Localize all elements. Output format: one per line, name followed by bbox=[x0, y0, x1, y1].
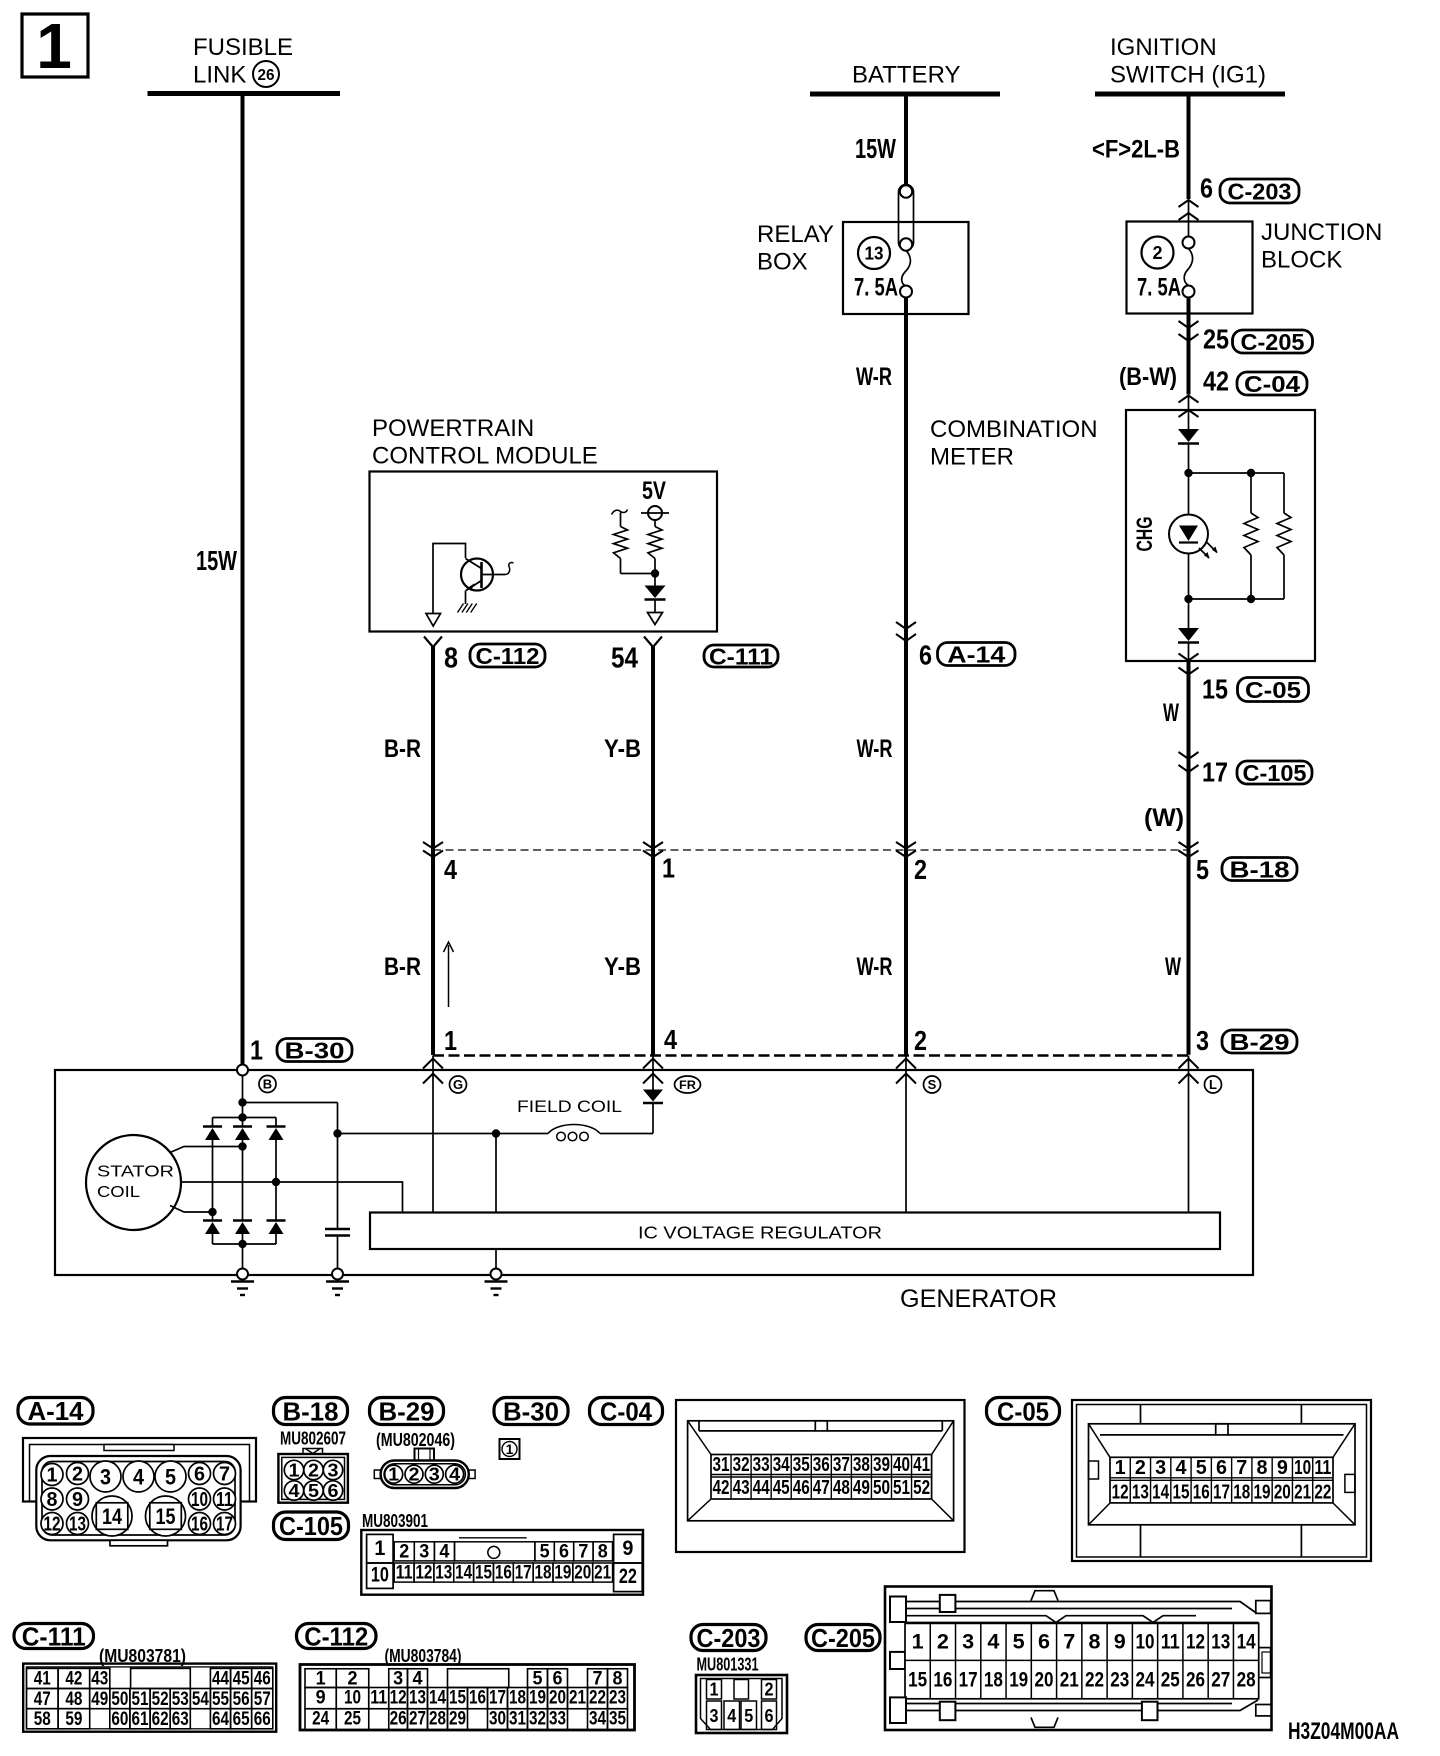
svg-text:C-04: C-04 bbox=[1244, 371, 1300, 397]
svg-text:B-R: B-R bbox=[384, 953, 421, 981]
svg-text:C-112: C-112 bbox=[304, 1621, 368, 1651]
svg-text:15W: 15W bbox=[855, 133, 896, 164]
svg-text:27: 27 bbox=[1211, 1669, 1230, 1692]
svg-text:26: 26 bbox=[390, 1709, 407, 1730]
svg-text:1: 1 bbox=[912, 1631, 924, 1654]
svg-text:42: 42 bbox=[65, 1669, 82, 1690]
svg-text:66: 66 bbox=[254, 1709, 271, 1730]
svg-text:BLOCK: BLOCK bbox=[1261, 247, 1342, 274]
svg-text:1: 1 bbox=[374, 1537, 385, 1560]
svg-text:C-203: C-203 bbox=[697, 1623, 761, 1653]
svg-text:15: 15 bbox=[475, 1563, 492, 1584]
svg-text:19: 19 bbox=[554, 1563, 571, 1584]
svg-text:W-R: W-R bbox=[856, 363, 892, 391]
svg-text:57: 57 bbox=[254, 1689, 271, 1710]
svg-text:11: 11 bbox=[370, 1687, 387, 1708]
svg-text:45: 45 bbox=[233, 1669, 250, 1690]
svg-text:L: L bbox=[1209, 1077, 1217, 1092]
svg-text:3: 3 bbox=[962, 1631, 974, 1654]
svg-text:A-14: A-14 bbox=[28, 1396, 85, 1426]
svg-text:MU803901: MU803901 bbox=[362, 1511, 428, 1531]
svg-text:39: 39 bbox=[873, 1454, 890, 1476]
svg-text:3: 3 bbox=[710, 1706, 719, 1726]
svg-text:6: 6 bbox=[1200, 173, 1213, 204]
svg-text:GENERATOR: GENERATOR bbox=[900, 1285, 1057, 1313]
svg-text:26: 26 bbox=[1186, 1669, 1205, 1692]
svg-text:6: 6 bbox=[765, 1706, 774, 1726]
svg-text:62: 62 bbox=[152, 1709, 169, 1730]
svg-text:9: 9 bbox=[316, 1687, 326, 1708]
svg-text:20: 20 bbox=[549, 1687, 566, 1708]
svg-text:34: 34 bbox=[773, 1454, 791, 1476]
svg-text:C-111: C-111 bbox=[709, 643, 773, 669]
svg-text:C-205: C-205 bbox=[1241, 329, 1305, 355]
svg-text:11: 11 bbox=[1161, 1631, 1180, 1654]
svg-text:21: 21 bbox=[1060, 1669, 1079, 1692]
svg-text:5: 5 bbox=[744, 1706, 753, 1726]
svg-text:H3Z04M00AA: H3Z04M00AA bbox=[1288, 1718, 1399, 1745]
svg-text:35: 35 bbox=[793, 1454, 810, 1476]
svg-text:18: 18 bbox=[509, 1687, 526, 1708]
svg-text:9: 9 bbox=[1114, 1631, 1126, 1654]
svg-text:(MU802046): (MU802046) bbox=[376, 1430, 455, 1450]
svg-text:49: 49 bbox=[91, 1689, 108, 1710]
svg-text:2: 2 bbox=[914, 854, 927, 885]
svg-text:C-04: C-04 bbox=[600, 1396, 652, 1426]
svg-text:10: 10 bbox=[1294, 1457, 1311, 1479]
svg-text:13: 13 bbox=[1211, 1631, 1230, 1654]
svg-text:17: 17 bbox=[515, 1563, 532, 1584]
svg-text:17: 17 bbox=[489, 1687, 506, 1708]
svg-text:52: 52 bbox=[913, 1477, 930, 1499]
svg-text:50: 50 bbox=[111, 1689, 128, 1710]
svg-text:34: 34 bbox=[589, 1709, 606, 1730]
svg-text:2: 2 bbox=[914, 1025, 927, 1056]
svg-text:C-05: C-05 bbox=[997, 1396, 1049, 1426]
svg-text:SWITCH (IG1): SWITCH (IG1) bbox=[1110, 62, 1266, 89]
svg-text:51: 51 bbox=[132, 1689, 149, 1710]
svg-text:40: 40 bbox=[893, 1454, 910, 1476]
svg-text:1: 1 bbox=[289, 1460, 300, 1480]
svg-text:25: 25 bbox=[344, 1709, 361, 1730]
svg-text:22: 22 bbox=[619, 1565, 637, 1588]
svg-text:27: 27 bbox=[409, 1709, 426, 1730]
svg-text:B: B bbox=[263, 1077, 272, 1092]
svg-text:63: 63 bbox=[172, 1709, 189, 1730]
svg-text:IC VOLTAGE REGULATOR: IC VOLTAGE REGULATOR bbox=[638, 1223, 882, 1243]
svg-text:29: 29 bbox=[449, 1709, 466, 1730]
svg-text:47: 47 bbox=[813, 1477, 830, 1499]
svg-text:B-18: B-18 bbox=[1230, 856, 1290, 882]
svg-text:Y-B: Y-B bbox=[604, 953, 641, 981]
svg-text:18: 18 bbox=[535, 1563, 552, 1584]
svg-text:65: 65 bbox=[233, 1709, 250, 1730]
svg-text:1: 1 bbox=[1115, 1457, 1126, 1479]
svg-text:12: 12 bbox=[44, 1514, 61, 1536]
svg-text:JUNCTION: JUNCTION bbox=[1261, 219, 1382, 246]
svg-text:48: 48 bbox=[833, 1477, 850, 1499]
svg-text:7. 5A: 7. 5A bbox=[1137, 274, 1181, 302]
svg-text:IGNITION: IGNITION bbox=[1110, 34, 1217, 61]
svg-text:36: 36 bbox=[813, 1454, 830, 1476]
svg-text:11: 11 bbox=[1314, 1457, 1331, 1479]
svg-text:24: 24 bbox=[312, 1709, 329, 1730]
svg-text:31: 31 bbox=[713, 1454, 730, 1476]
svg-text:13: 13 bbox=[865, 244, 884, 264]
svg-text:21: 21 bbox=[1294, 1482, 1311, 1504]
svg-text:MU802607: MU802607 bbox=[280, 1429, 346, 1449]
svg-text:B-29: B-29 bbox=[1230, 1029, 1290, 1055]
svg-text:4: 4 bbox=[444, 854, 457, 885]
svg-text:18: 18 bbox=[1233, 1482, 1250, 1504]
svg-text:10: 10 bbox=[1136, 1631, 1155, 1654]
svg-text:5: 5 bbox=[1196, 1457, 1207, 1479]
svg-text:44: 44 bbox=[753, 1477, 771, 1499]
svg-text:46: 46 bbox=[793, 1477, 810, 1499]
svg-text:FIELD COIL: FIELD COIL bbox=[517, 1097, 622, 1116]
svg-text:9: 9 bbox=[622, 1537, 633, 1560]
svg-text:7: 7 bbox=[1236, 1457, 1247, 1479]
svg-text:C-112: C-112 bbox=[476, 643, 540, 669]
svg-text:20: 20 bbox=[574, 1563, 591, 1584]
svg-text:Y-B: Y-B bbox=[604, 735, 641, 763]
svg-text:22: 22 bbox=[589, 1687, 606, 1708]
svg-text:15: 15 bbox=[449, 1687, 466, 1708]
svg-text:16: 16 bbox=[495, 1563, 512, 1584]
svg-text:1: 1 bbox=[662, 853, 675, 884]
svg-text:B-29: B-29 bbox=[379, 1396, 435, 1426]
svg-text:58: 58 bbox=[34, 1709, 51, 1730]
svg-text:2: 2 bbox=[409, 1465, 420, 1485]
svg-text:6: 6 bbox=[194, 1464, 205, 1486]
svg-text:17: 17 bbox=[216, 1514, 233, 1536]
svg-text:28: 28 bbox=[1237, 1669, 1256, 1692]
svg-text:C-05: C-05 bbox=[1245, 677, 1301, 703]
svg-text:W-R: W-R bbox=[857, 953, 893, 981]
svg-text:(MU803784): (MU803784) bbox=[385, 1646, 462, 1666]
svg-text:23: 23 bbox=[609, 1687, 626, 1708]
svg-text:50: 50 bbox=[873, 1477, 890, 1499]
svg-text:C-111: C-111 bbox=[22, 1621, 86, 1651]
svg-text:43: 43 bbox=[733, 1477, 750, 1499]
svg-text:20: 20 bbox=[1274, 1482, 1291, 1504]
svg-text:4: 4 bbox=[449, 1465, 460, 1485]
svg-text:7: 7 bbox=[1063, 1631, 1075, 1654]
svg-text:1: 1 bbox=[444, 1025, 457, 1056]
svg-text:W: W bbox=[1163, 699, 1179, 727]
svg-text:16: 16 bbox=[933, 1669, 952, 1692]
svg-text:A-14: A-14 bbox=[947, 641, 1005, 667]
svg-text:49: 49 bbox=[853, 1477, 870, 1499]
svg-text:1: 1 bbox=[36, 10, 72, 82]
svg-text:12: 12 bbox=[415, 1563, 432, 1584]
svg-text:FUSIBLE: FUSIBLE bbox=[193, 34, 293, 61]
svg-text:G: G bbox=[453, 1077, 463, 1092]
svg-text:6: 6 bbox=[1216, 1457, 1227, 1479]
svg-text:FR: FR bbox=[679, 1078, 696, 1092]
svg-text:RELAY: RELAY bbox=[757, 221, 834, 248]
svg-text:42: 42 bbox=[713, 1477, 730, 1499]
svg-text:2: 2 bbox=[308, 1460, 319, 1480]
svg-text:(W): (W) bbox=[1144, 804, 1184, 832]
svg-text:W-R: W-R bbox=[857, 735, 893, 763]
svg-text:14: 14 bbox=[1237, 1631, 1256, 1654]
svg-text:2: 2 bbox=[1135, 1457, 1146, 1479]
svg-text:26: 26 bbox=[258, 67, 275, 84]
svg-text:61: 61 bbox=[132, 1709, 149, 1730]
svg-text:4: 4 bbox=[727, 1706, 736, 1726]
svg-text:19: 19 bbox=[1009, 1669, 1028, 1692]
svg-text:16: 16 bbox=[191, 1514, 208, 1536]
svg-text:23: 23 bbox=[1110, 1669, 1129, 1692]
svg-text:24: 24 bbox=[1136, 1669, 1155, 1692]
svg-text:1: 1 bbox=[506, 1441, 514, 1457]
svg-text:28: 28 bbox=[429, 1709, 446, 1730]
svg-text:13: 13 bbox=[1132, 1482, 1149, 1504]
svg-text:5: 5 bbox=[165, 1464, 176, 1489]
svg-text:METER: METER bbox=[930, 444, 1014, 471]
svg-text:14: 14 bbox=[429, 1687, 446, 1708]
svg-text:30: 30 bbox=[489, 1709, 506, 1730]
svg-text:64: 64 bbox=[212, 1709, 229, 1730]
svg-text:42: 42 bbox=[1203, 366, 1229, 397]
svg-text:41: 41 bbox=[913, 1454, 930, 1476]
svg-text:MU801331: MU801331 bbox=[697, 1655, 759, 1675]
svg-text:5: 5 bbox=[308, 1481, 319, 1501]
svg-text:15: 15 bbox=[908, 1669, 927, 1692]
svg-text:14: 14 bbox=[1152, 1482, 1170, 1504]
svg-text:6: 6 bbox=[328, 1481, 339, 1501]
svg-text:46: 46 bbox=[254, 1669, 271, 1690]
svg-text:C-203: C-203 bbox=[1228, 178, 1292, 204]
svg-text:5: 5 bbox=[1013, 1631, 1025, 1654]
svg-text:25: 25 bbox=[1161, 1669, 1180, 1692]
svg-text:CONTROL MODULE: CONTROL MODULE bbox=[372, 443, 598, 470]
svg-text:1: 1 bbox=[710, 1680, 719, 1700]
svg-text:9: 9 bbox=[1277, 1457, 1288, 1479]
svg-text:3: 3 bbox=[328, 1460, 339, 1480]
svg-text:CHG: CHG bbox=[1132, 517, 1157, 552]
svg-text:17: 17 bbox=[959, 1669, 978, 1692]
svg-text:14: 14 bbox=[102, 1504, 123, 1529]
svg-text:43: 43 bbox=[91, 1669, 108, 1690]
svg-text:BATTERY: BATTERY bbox=[852, 62, 960, 89]
svg-text:3: 3 bbox=[429, 1465, 440, 1485]
svg-text:10: 10 bbox=[371, 1564, 389, 1587]
svg-text:9: 9 bbox=[72, 1489, 83, 1511]
svg-text:STATOR: STATOR bbox=[97, 1164, 174, 1181]
svg-text:3: 3 bbox=[1196, 1025, 1209, 1056]
svg-text:15: 15 bbox=[1202, 674, 1228, 705]
svg-text:25: 25 bbox=[1203, 324, 1229, 355]
svg-text:S: S bbox=[928, 1077, 937, 1092]
svg-text:B-18: B-18 bbox=[283, 1396, 339, 1426]
svg-text:38: 38 bbox=[853, 1454, 870, 1476]
svg-text:12: 12 bbox=[1112, 1482, 1129, 1504]
svg-text:<F>2L-B: <F>2L-B bbox=[1092, 136, 1180, 164]
svg-text:41: 41 bbox=[34, 1669, 51, 1690]
svg-text:2: 2 bbox=[765, 1680, 774, 1700]
svg-text:52: 52 bbox=[152, 1689, 169, 1710]
svg-text:10: 10 bbox=[191, 1489, 208, 1511]
svg-text:48: 48 bbox=[65, 1689, 82, 1710]
svg-text:7: 7 bbox=[219, 1464, 230, 1486]
svg-text:4: 4 bbox=[289, 1481, 300, 1501]
svg-text:3: 3 bbox=[419, 1542, 429, 1563]
svg-text:22: 22 bbox=[1314, 1482, 1331, 1504]
svg-text:19: 19 bbox=[1254, 1482, 1271, 1504]
svg-text:C-205: C-205 bbox=[811, 1623, 875, 1653]
svg-text:6: 6 bbox=[919, 640, 932, 671]
svg-text:17: 17 bbox=[1202, 757, 1228, 788]
svg-text:45: 45 bbox=[773, 1477, 790, 1499]
svg-text:C-105: C-105 bbox=[1243, 760, 1307, 786]
svg-text:LINK: LINK bbox=[193, 62, 246, 89]
svg-text:53: 53 bbox=[172, 1689, 189, 1710]
svg-text:2: 2 bbox=[937, 1631, 949, 1654]
svg-text:18: 18 bbox=[984, 1669, 1003, 1692]
svg-text:1: 1 bbox=[388, 1465, 399, 1485]
svg-text:15W: 15W bbox=[196, 545, 237, 576]
svg-text:(B-W): (B-W) bbox=[1119, 363, 1177, 391]
svg-text:16: 16 bbox=[469, 1687, 486, 1708]
svg-text:2: 2 bbox=[399, 1542, 409, 1563]
svg-text:3: 3 bbox=[100, 1464, 111, 1489]
svg-text:2: 2 bbox=[72, 1464, 83, 1486]
svg-text:15: 15 bbox=[156, 1504, 176, 1529]
svg-text:56: 56 bbox=[233, 1689, 250, 1710]
svg-text:35: 35 bbox=[609, 1709, 626, 1730]
svg-text:10: 10 bbox=[344, 1687, 361, 1708]
svg-text:17: 17 bbox=[1213, 1482, 1230, 1504]
svg-text:4: 4 bbox=[664, 1024, 677, 1055]
svg-text:51: 51 bbox=[893, 1477, 910, 1499]
svg-text:1: 1 bbox=[47, 1465, 58, 1487]
svg-text:4: 4 bbox=[133, 1464, 145, 1489]
svg-text:6: 6 bbox=[1038, 1631, 1050, 1654]
svg-text:B-R: B-R bbox=[384, 735, 421, 763]
svg-text:7. 5A: 7. 5A bbox=[854, 274, 898, 302]
svg-text:8: 8 bbox=[598, 1542, 608, 1563]
svg-text:32: 32 bbox=[529, 1709, 546, 1730]
svg-text:37: 37 bbox=[833, 1454, 850, 1476]
svg-text:C-105: C-105 bbox=[279, 1511, 343, 1541]
svg-text:B-30: B-30 bbox=[503, 1396, 559, 1426]
svg-text:44: 44 bbox=[212, 1669, 229, 1690]
svg-text:19: 19 bbox=[529, 1687, 546, 1708]
svg-text:55: 55 bbox=[212, 1689, 229, 1710]
svg-text:3: 3 bbox=[1155, 1457, 1166, 1479]
svg-text:8: 8 bbox=[1088, 1631, 1100, 1654]
svg-text:32: 32 bbox=[733, 1454, 750, 1476]
svg-text:13: 13 bbox=[409, 1687, 426, 1708]
svg-text:4: 4 bbox=[439, 1542, 449, 1563]
svg-text:14: 14 bbox=[455, 1563, 472, 1584]
svg-text:B-30: B-30 bbox=[285, 1037, 345, 1063]
svg-text:59: 59 bbox=[65, 1709, 82, 1730]
svg-text:22: 22 bbox=[1085, 1669, 1104, 1692]
svg-text:11: 11 bbox=[216, 1489, 233, 1511]
svg-text:POWERTRAIN: POWERTRAIN bbox=[372, 415, 534, 442]
svg-text:21: 21 bbox=[569, 1687, 586, 1708]
svg-text:2: 2 bbox=[1152, 243, 1162, 263]
svg-text:4: 4 bbox=[987, 1631, 999, 1654]
svg-text:33: 33 bbox=[753, 1454, 770, 1476]
svg-text:5V: 5V bbox=[642, 477, 666, 505]
svg-text:BOX: BOX bbox=[757, 249, 808, 276]
svg-text:16: 16 bbox=[1193, 1482, 1210, 1504]
svg-text:5: 5 bbox=[540, 1542, 550, 1563]
svg-text:60: 60 bbox=[111, 1709, 128, 1730]
svg-text:8: 8 bbox=[1257, 1457, 1268, 1479]
svg-text:1: 1 bbox=[250, 1035, 263, 1066]
svg-text:5: 5 bbox=[1196, 854, 1209, 885]
svg-text:54: 54 bbox=[192, 1689, 209, 1710]
svg-text:7: 7 bbox=[578, 1542, 588, 1563]
svg-text:20: 20 bbox=[1034, 1669, 1053, 1692]
svg-text:4: 4 bbox=[1175, 1457, 1187, 1479]
svg-text:13: 13 bbox=[69, 1514, 86, 1536]
svg-text:8: 8 bbox=[47, 1489, 58, 1511]
svg-text:11: 11 bbox=[396, 1563, 413, 1584]
svg-text:8: 8 bbox=[444, 643, 458, 675]
svg-text:W: W bbox=[1165, 953, 1181, 981]
svg-text:6: 6 bbox=[559, 1542, 569, 1563]
svg-text:COMBINATION: COMBINATION bbox=[930, 416, 1098, 443]
svg-text:21: 21 bbox=[594, 1563, 611, 1584]
svg-text:COIL: COIL bbox=[97, 1184, 140, 1201]
svg-text:15: 15 bbox=[1172, 1482, 1189, 1504]
svg-text:12: 12 bbox=[1186, 1631, 1205, 1654]
svg-text:31: 31 bbox=[509, 1709, 526, 1730]
svg-text:47: 47 bbox=[34, 1689, 51, 1710]
svg-text:13: 13 bbox=[435, 1563, 452, 1584]
svg-text:33: 33 bbox=[549, 1709, 566, 1730]
svg-text:54: 54 bbox=[611, 643, 638, 675]
svg-text:12: 12 bbox=[390, 1687, 407, 1708]
